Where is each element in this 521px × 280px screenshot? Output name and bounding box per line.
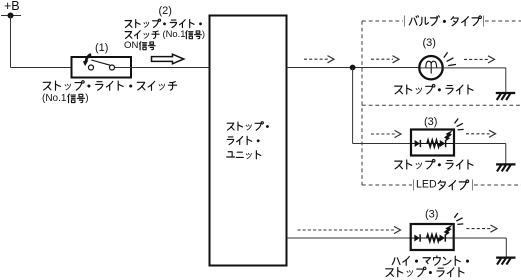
wire +B vertical drop bbox=[10, 16, 12, 68]
svg-text:(3): (3) bbox=[423, 37, 436, 49]
LED rays row2 bbox=[455, 119, 464, 130]
switch S1 body box bbox=[72, 57, 132, 78]
dashed box label tick marks (LED) bbox=[414, 180, 473, 191]
svg-text:(No.1: (No.1 bbox=[163, 28, 186, 39]
power +B label bbox=[4, 0, 20, 13]
signal arrow row2 b bbox=[466, 130, 496, 137]
label ON-signal line1 bbox=[125, 19, 201, 27]
label stop light switch line1 bbox=[43, 81, 176, 91]
svg-text:+B: +B bbox=[4, 0, 20, 13]
node junction at +B bbox=[8, 13, 14, 19]
LED rays row3 bbox=[454, 213, 463, 224]
LED high-mount module bbox=[411, 224, 454, 250]
svg-text:(1): (1) bbox=[95, 42, 108, 54]
svg-text:(2): (2) bbox=[159, 5, 172, 17]
svg-text:): ) bbox=[85, 93, 88, 104]
label LED type bbox=[416, 179, 469, 191]
ground G2 bbox=[496, 164, 515, 171]
bulb light rays bbox=[444, 52, 456, 65]
label (1) bbox=[95, 42, 108, 54]
signal arrow row1 b bbox=[371, 56, 399, 63]
bulb stop light (lamp) bbox=[419, 56, 442, 79]
LED stop light module bbox=[411, 130, 454, 156]
ground G1 bbox=[496, 93, 515, 100]
dashed box divider edge bbox=[362, 104, 521, 106]
dashed box bulb-type top edge bbox=[362, 20, 521, 22]
wire junction down to row2 bbox=[352, 68, 354, 144]
wire +B to switch S1 bbox=[11, 67, 89, 69]
label stop light switch line2 (No.1 signal) bbox=[42, 93, 89, 104]
label high mount line2 bbox=[386, 267, 464, 277]
wire down to ground G1 bbox=[505, 68, 507, 93]
label high mount line1 bbox=[392, 256, 468, 265]
switch S1 actuation arrow bbox=[83, 54, 91, 65]
wire unit to junction (row1) bbox=[287, 67, 420, 69]
wire row2 to LED box bbox=[353, 143, 411, 145]
switch S1 left contact bbox=[89, 65, 94, 70]
label (3) row2 bbox=[424, 116, 437, 128]
label (2) bbox=[159, 5, 172, 17]
label ON-signal line3 bbox=[124, 40, 155, 51]
svg-text:ON: ON bbox=[124, 40, 138, 51]
wire high-mount to ground bbox=[454, 237, 507, 239]
signal arrow row1 a bbox=[304, 56, 334, 63]
wire switch to unit bbox=[115, 67, 210, 69]
node junction dot bbox=[350, 65, 356, 71]
signal arrow row2 a bbox=[371, 130, 401, 137]
power +B terminal bar bbox=[1, 15, 21, 17]
label ON-signal line2 bbox=[125, 28, 205, 39]
signal arrow row1 c bbox=[464, 56, 495, 63]
switch S1 right contact bbox=[110, 65, 115, 70]
wire unit to high-mount LED bbox=[287, 237, 411, 239]
dashed box led-type bottom edge bbox=[362, 184, 521, 186]
dashed box left edge bbox=[361, 21, 363, 185]
svg-text:(3): (3) bbox=[424, 116, 437, 128]
svg-text:LED: LED bbox=[416, 179, 437, 191]
wire bulb to ground bbox=[420, 67, 506, 69]
signal flow arrow (outline) bbox=[152, 54, 184, 64]
wire LED to ground row2 bbox=[454, 143, 506, 145]
svg-text:): ) bbox=[202, 28, 205, 39]
label stop light unit bbox=[227, 122, 269, 159]
label (3) row3 bbox=[425, 209, 438, 221]
svg-text:(No.1: (No.1 bbox=[42, 93, 67, 104]
label bulb type bbox=[409, 16, 481, 26]
signal arrow row3 a bbox=[298, 226, 401, 233]
dashed box label tick marks (bulb) bbox=[405, 16, 484, 27]
signal arrow row3 b bbox=[466, 225, 497, 232]
switch S1 blade (open) bbox=[91, 60, 110, 65]
label stop light (LED) bbox=[395, 160, 473, 170]
ground G3 bbox=[496, 258, 515, 265]
stop light unit U1 box bbox=[210, 16, 287, 266]
wire down to ground G2 bbox=[505, 144, 507, 165]
wire down to ground G3 bbox=[505, 238, 507, 257]
label (3) row1 bbox=[423, 37, 436, 49]
svg-text:(3): (3) bbox=[425, 209, 438, 221]
label stop light (bulb) bbox=[395, 85, 473, 95]
